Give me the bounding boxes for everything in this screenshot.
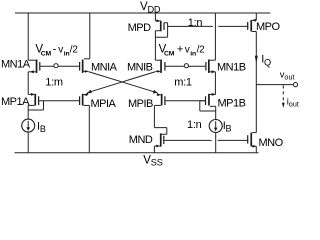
wire MPIA drain to VSS [88,105,90,152]
svg-text:MNIB: MNIB [127,62,153,74]
transistor MN1B [205,60,215,74]
VDD rail [15,12,270,14]
I_Q arrow [255,56,258,64]
wire MPIB drain down to MND [153,105,155,127]
wire MP1A gate to MPIA gate [39,100,79,102]
svg-text:IB: IB [223,120,232,134]
svg-text:MNIA: MNIA [91,62,118,74]
current source IB left [22,119,35,132]
wire MN1B drain to VDD [214,13,216,60]
wire MP1B diode loop [200,101,216,111]
wire IB right to VSS [215,132,217,153]
wire MP1A diode loop [28,101,43,110]
wire MNIA source diagonal to MPIB source [84,70,88,72]
wire MP1B drain down to IB [215,106,217,119]
wire right input net [166,65,206,67]
svg-text:+: + [177,44,183,56]
svg-text:vout: vout [280,70,295,82]
wire MN1B source to MP1B source [214,72,216,95]
svg-text:IB: IB [37,121,46,135]
transistor MPIA [79,93,89,106]
svg-text:IQ: IQ [261,54,271,68]
node v_out terminal [293,83,297,87]
svg-text:in: in [190,50,196,57]
wire MPIB gate to MP1B gate [166,100,205,102]
svg-text:-: - [53,44,57,56]
svg-text:v: v [185,45,190,56]
svg-text:VDD: VDD [140,1,161,14]
transistor MNIA [79,59,90,73]
transistor MNO [247,133,256,153]
svg-text:CM: CM [164,50,175,57]
transistor MN1A [28,60,40,74]
wire MPD diode loop [155,23,167,38]
transistor MPD [155,13,167,31]
svg-text:MP1A: MP1A [1,96,30,108]
wire MND gate to MNO gate (1:n mirror net) [164,139,248,141]
wire left input net [40,65,79,67]
current source IB right [209,120,222,133]
transistor MNIB [155,60,165,73]
wire MPD drain down to MNIB drain [154,31,156,61]
svg-text:MNO: MNO [259,137,284,149]
svg-text:v: v [58,45,63,56]
svg-text:MP1B: MP1B [218,98,246,110]
svg-text:/2: /2 [70,45,79,56]
svg-text:MPO: MPO [256,21,281,33]
wire MNIA drain to VDD [89,13,91,59]
wire MPD gate to MPO gate (1:n mirror net) [168,25,249,27]
node left input terminal [54,64,58,68]
transistor MP1B [205,93,216,106]
svg-text:MND: MND [129,134,153,146]
wire MN1A drain to VDD [27,13,29,60]
transistor MND [154,128,166,153]
node right input terminal [184,64,188,68]
svg-text:VSS: VSS [143,155,162,167]
svg-text:1:n: 1:n [188,17,203,29]
wire IB left to VSS [27,132,29,153]
wire output branch MPO drain to MNO drain [255,32,257,133]
i_out arrow [282,85,284,104]
svg-text:iout: iout [287,97,299,109]
svg-text:MPIB: MPIB [128,98,153,110]
svg-text:MN1B: MN1B [217,61,246,73]
svg-text:MPD: MPD [128,22,152,34]
wire MN1A source to MP1A source [27,72,29,95]
transistor MPO [247,13,256,32]
svg-text:MN1A: MN1A [1,58,31,70]
wire v_out [256,84,293,86]
wire MNIB source diagonal to MPIA source [156,70,160,72]
svg-text:MPIA: MPIA [91,98,117,110]
wire MP1A drain down to IB [27,105,29,119]
svg-text:m:1: m:1 [174,77,192,89]
transistor MPIB [154,93,165,105]
svg-text:in: in [64,50,70,57]
svg-text:/2: /2 [197,45,206,56]
svg-text:1:n: 1:n [187,119,202,131]
svg-text:1:m: 1:m [45,77,63,89]
transistor MP1A [28,93,39,106]
svg-text:CM: CM [41,50,52,57]
VSS rail [15,152,259,154]
